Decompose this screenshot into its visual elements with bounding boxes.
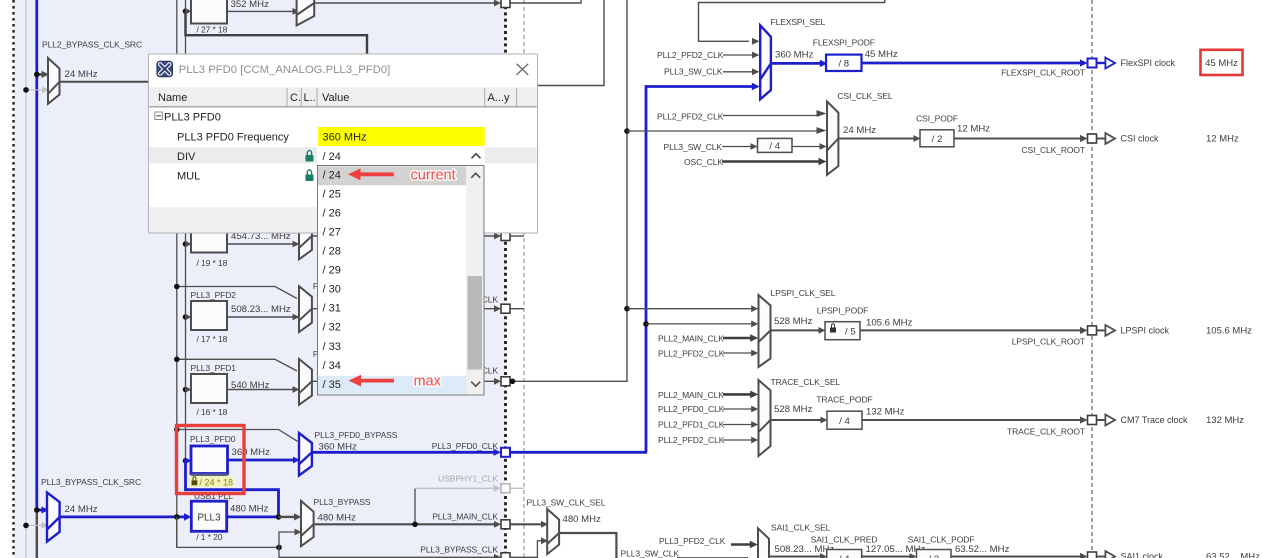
svg-text:/ 26: / 26	[323, 207, 341, 219]
port square PLL3_BYPASS_CLK	[501, 553, 510, 558]
wire: trace mux out	[771, 419, 822, 421]
svg-text:PLL3 PFD0: PLL3 PFD0	[164, 111, 221, 123]
svg-text:FLEXSPI_PODF: FLEXSPI_PODF	[813, 38, 875, 48]
svg-text:PLL3_SW_CLK: PLL3_SW_CLK	[664, 142, 723, 152]
junction dot + arrow block input	[183, 387, 189, 393]
spinner chevron DIV	[472, 154, 481, 159]
svg-text:Value: Value	[322, 92, 349, 104]
port square PLL3_PFD1_CLK	[501, 377, 510, 386]
wire + output triangle LPSPI	[1097, 329, 1106, 331]
svg-text:12 MHz: 12 MHz	[957, 124, 990, 135]
svg-text:MUL: MUL	[177, 171, 200, 183]
junction dot bypass rail row	[174, 427, 180, 433]
svg-text:PLL3_SW_CLK: PLL3_SW_CLK	[621, 549, 680, 558]
wire: PLL3 bypass rail vertical	[176, 0, 178, 547]
left dotted page border	[12, 0, 14, 558]
svg-text:352 MHz: 352 MHz	[231, 0, 270, 10]
svg-text:PLL3_MAIN_CLK: PLL3_MAIN_CLK	[432, 512, 498, 522]
svg-text:PLL3_SW_CLK_SEL: PLL3_SW_CLK_SEL	[527, 498, 606, 508]
dropdown selected item /24	[318, 166, 466, 185]
block PLL3_PFD3 (454.73 MHz)	[191, 226, 227, 253]
wire: into /4 divider	[722, 146, 751, 148]
wire: rail lead-in to PFD1 bypass mux	[177, 359, 297, 371]
dialog row DIV (selected gray)	[149, 147, 317, 164]
wire: blue block out to mux	[228, 459, 295, 462]
wire: PLL3_SW_CLK stub	[723, 71, 753, 73]
wire: mux out to port PLL3_PFD3_CLK	[312, 235, 495, 237]
svg-text:CSI_PODF: CSI_PODF	[916, 114, 958, 124]
svg-text:CSI_CLK_ROOT: CSI_CLK_ROOT	[1021, 145, 1085, 155]
svg-text:/ 2: / 2	[928, 554, 939, 558]
wire stub	[510, 308, 524, 310]
svg-text:PLL2_PFD2_CLK: PLL2_PFD2_CLK	[658, 435, 725, 445]
svg-text:45 MHz: 45 MHz	[1205, 58, 1238, 69]
svg-text:PLL2_PFD2_CLK: PLL2_PFD2_CLK	[657, 112, 724, 122]
svg-text:TRACE_CLK_SEL: TRACE_CLK_SEL	[771, 377, 841, 387]
svg-text:LPSPI_CLK_ROOT: LPSPI_CLK_ROOT	[1012, 337, 1085, 347]
port square CSI_CLK_ROOT	[1088, 134, 1097, 143]
svg-text:/ 17 * 18: / 17 * 18	[197, 334, 228, 344]
wire: CSI in1	[723, 115, 820, 117]
svg-text:/ 27: / 27	[323, 227, 341, 239]
svg-text:PLL3_PFD2_CLK: PLL3_PFD2_CLK	[659, 536, 726, 546]
junction dot LPSPI tap on blue	[643, 321, 649, 327]
svg-text:SAI1_CLK_PRED: SAI1_CLK_PRED	[811, 535, 878, 545]
svg-text:528 MHz: 528 MHz	[774, 316, 813, 327]
wire: mux1 input1 from blue rail	[37, 73, 43, 76]
wire: blue mux out to port PLL3_PFD0_CLK	[312, 451, 495, 454]
svg-text:360 MHz: 360 MHz	[232, 447, 271, 458]
wire: PLL2_MAIN_CLK thick	[723, 337, 751, 340]
svg-text:/ 28: / 28	[323, 246, 341, 258]
mux TRACE_CLK_SEL	[759, 380, 771, 456]
dialog empty area shading	[149, 207, 317, 233]
svg-text:PLL2_PFD1_CLK: PLL2_PFD1_CLK	[658, 420, 725, 430]
mux PLL2_BYPASS_CLK_SRC	[48, 58, 60, 104]
svg-text:current: current	[411, 168, 456, 184]
mux PLL3_BYPASS	[301, 501, 314, 546]
annotation red rect around PLL3_PFD0	[177, 426, 245, 494]
junction dot bypass rail tap	[174, 514, 180, 520]
dropdown list popup	[318, 166, 485, 396]
wire: blue to FlexSPI root port	[862, 62, 1082, 65]
annotation arrow current	[348, 168, 394, 180]
svg-text:CSI_CLK_SEL: CSI_CLK_SEL	[837, 91, 892, 101]
wire: trace in3	[723, 424, 752, 426]
svg-text:PLL3_BYPASS_CLK: PLL3_BYPASS_CLK	[420, 545, 498, 555]
svg-text:SAI1_CLK_SEL: SAI1_CLK_SEL	[771, 523, 831, 533]
junction dot bypass rail row	[174, 357, 180, 363]
svg-text:PLL2_PFD2_CLK: PLL2_PFD2_CLK	[657, 50, 724, 60]
svg-text:PLL3_PFD0: PLL3_PFD0	[190, 434, 236, 444]
junction dot PFD3 feed	[183, 8, 189, 14]
wire + output triangle CSI	[1097, 138, 1106, 140]
port square SAI1_CLK_ROOT	[1088, 552, 1097, 558]
svg-text:24 MHz: 24 MHz	[65, 504, 98, 515]
wire: SAI in2	[677, 557, 748, 558]
svg-text:PLL3_PFD0_CLK: PLL3_PFD0_CLK	[432, 441, 499, 451]
lock icon MUL	[305, 175, 313, 182]
svg-text:SAI1_CLK_PODF: SAI1_CLK_PODF	[908, 535, 975, 545]
wire: LPSPI mux out 528MHz	[771, 329, 820, 331]
mux PLL3_SW_CLK_SEL	[547, 509, 559, 554]
wire: to CSI root port	[954, 138, 1081, 140]
svg-text:/ 24 * 18: / 24 * 18	[200, 478, 234, 488]
dialog titlebar icon	[157, 61, 172, 76]
junction dot bypass net branch	[276, 545, 282, 551]
mux PLL2_PFD3_BYPASS (cut at top)	[297, 0, 315, 26]
mux PLL3_BYPASS_CLK_SRC (blue)	[47, 493, 60, 542]
junction dot + arrow block input	[183, 241, 189, 247]
wire: PLL2_PFD2_CLK stub	[723, 352, 752, 354]
port square PLL3_PFD2_CLK	[501, 304, 510, 313]
svg-text:/ 24: / 24	[323, 151, 341, 163]
svg-text:PLL3 PFD0 [CCM_ANALOG.PLL3_PFD: PLL3 PFD0 [CCM_ANALOG.PLL3_PFD0]	[179, 64, 391, 76]
mux PLL3_PFD0_BYPASS (blue)	[299, 433, 312, 476]
annotation red box around 45 MHz	[1201, 50, 1243, 75]
svg-text:PLL2_PFD0_CLK: PLL2_PFD0_CLK	[658, 404, 725, 414]
mux PLL3_PFD3_BYPASS	[299, 214, 312, 260]
svg-text:/ 24: / 24	[323, 169, 341, 181]
junction dot bypass rail row	[174, 284, 180, 290]
svg-text:PLL3_BYPASS_CLK_SRC: PLL3_BYPASS_CLK_SRC	[41, 477, 141, 487]
wire: gray to PLL3_BYPASS mux in1	[279, 516, 295, 518]
wire: to SAI root port	[951, 556, 1081, 558]
mux SAI1_CLK_SEL (clipped at bottom)	[758, 528, 769, 558]
svg-text:FlexSPI clock: FlexSPI clock	[1121, 58, 1176, 68]
svg-text:CM7 Trace clock: CM7 Trace clock	[1121, 415, 1189, 425]
mux LPSPI_CLK_SEL	[759, 295, 771, 367]
dropdown item /35 highlighted	[318, 376, 466, 395]
mux CSI_CLK_SEL	[827, 102, 838, 175]
svg-text:/ 4: / 4	[839, 416, 850, 427]
svg-text:/ 31: / 31	[323, 303, 341, 315]
block PLL3_PFD2	[191, 301, 227, 330]
svg-text:Name: Name	[158, 92, 187, 104]
svg-text:PLL3_PFD0_BYPASS: PLL3_PFD0_BYPASS	[315, 430, 398, 440]
wire: PLL3 480 feed rail vertical	[185, 0, 187, 461]
wire: OSC_CLK thick	[722, 160, 819, 163]
svg-text:508.23... MHz: 508.23... MHz	[775, 544, 835, 555]
svg-text:L..: L..	[304, 92, 316, 104]
svg-text:/ 25: / 25	[323, 188, 341, 200]
port square PLL2_PFD3_CLK	[501, 0, 510, 8]
wire: block out to mux	[227, 389, 293, 391]
svg-text:max: max	[414, 373, 442, 389]
wire: trace in2	[723, 408, 752, 410]
svg-text:DIV: DIV	[177, 151, 196, 163]
svg-text:CSI clock: CSI clock	[1121, 134, 1160, 144]
background left lavender region	[14, 0, 505, 558]
svg-text:/ 35: / 35	[323, 379, 341, 391]
junction dot on blue rail	[34, 72, 40, 78]
wire: trace in4	[723, 439, 752, 441]
boundary gray dashed line	[523, 0, 525, 558]
svg-text:A...y: A...y	[488, 92, 511, 104]
boundary dotted line mid	[504, 0, 507, 558]
wire: mux out to port	[314, 2, 494, 4]
svg-text:PLL2_MAIN_CLK: PLL2_MAIN_CLK	[658, 390, 724, 400]
svg-text:USBPHY1_CLK: USBPHY1_CLK	[438, 474, 498, 484]
svg-text:132 MHz: 132 MHz	[1206, 415, 1244, 426]
dialog PLL3 PFD0 window	[149, 54, 538, 233]
junction dot bypass rail row	[174, 211, 180, 217]
wire: mux1 input2 from light rail	[26, 89, 43, 91]
junction dot on light rail	[23, 87, 29, 93]
wire: rail lead-in to PFD2 bypass mux	[177, 287, 297, 299]
wire: CSI in2 from distribution rail	[627, 130, 820, 132]
port square PLL3_MAIN_CLK	[501, 520, 510, 529]
svg-text:LPSPI clock: LPSPI clock	[1121, 326, 1170, 336]
wire: FLEXSPI mux out 360MHz blue	[771, 62, 821, 65]
block PLL3 (blue)	[191, 501, 226, 531]
junction dot + arrow block input	[183, 314, 189, 320]
junction dot blue rail tap	[34, 507, 40, 513]
svg-text:480 MHz: 480 MHz	[230, 504, 269, 515]
wire: rail lead-in to PFD3 bypass mux	[177, 214, 297, 226]
block PLL3_PFD1	[191, 374, 227, 403]
wire: to SW mux in1	[510, 523, 541, 525]
wire: mux out to port PLL3_PFD2_CLK	[312, 308, 495, 310]
svg-text:24 MHz: 24 MHz	[843, 125, 876, 136]
wire: to trace root port	[862, 419, 1081, 421]
wire: LPSPI in1 from rail	[627, 308, 752, 310]
wire + output triangle Trace	[1097, 419, 1106, 421]
svg-text:SAI1 clock: SAI1 clock	[1121, 552, 1164, 558]
svg-text:480 MHz: 480 MHz	[318, 513, 357, 524]
svg-text:TRACE_CLK_ROOT: TRACE_CLK_ROOT	[1007, 427, 1085, 437]
svg-text:480 MHz: 480 MHz	[563, 514, 602, 525]
svg-text:63.52... MHz: 63.52... MHz	[1206, 552, 1260, 558]
wire: USBPHY1 branch	[414, 488, 416, 524]
wire: SW mux out down	[559, 533, 616, 558]
port square FLEXSPI_CLK_ROOT (blue)	[1088, 59, 1097, 68]
junction dot light rail tap	[23, 523, 29, 529]
svg-text:/ 30: / 30	[323, 284, 341, 296]
svg-text:/ 8: / 8	[838, 59, 849, 70]
wire: gray rail below PLL3 mux tap	[36, 509, 38, 558]
svg-text:360 MHz: 360 MHz	[323, 131, 367, 143]
svg-text:PLL3_BYPASS: PLL3_BYPASS	[314, 497, 371, 507]
wire: block output to bypass mux	[227, 10, 293, 12]
svg-text:PLL3: PLL3	[197, 513, 221, 524]
svg-text:63.52... MHz: 63.52... MHz	[955, 544, 1010, 555]
dialog table header	[149, 87, 537, 106]
wire: divider to mux	[792, 146, 820, 148]
svg-text:/ 33: / 33	[323, 341, 341, 353]
svg-text:PLL3_SW_CLK: PLL3_SW_CLK	[664, 67, 723, 77]
junction dot PLL3 output branch	[276, 514, 282, 520]
dropdown scrollbar	[466, 166, 484, 394]
wire: light input2	[26, 524, 43, 526]
svg-text:PLL3_PFD2: PLL3_PFD2	[191, 290, 237, 300]
svg-text:LPSPI_PODF: LPSPI_PODF	[817, 306, 868, 316]
wire: blue 24MHz rail	[35, 0, 38, 511]
svg-text:/ 5: / 5	[845, 326, 856, 337]
wire: PLL3_BYPASS_CLK out bottom	[279, 547, 495, 557]
wire: to LPSPI root port	[860, 329, 1081, 331]
wire: PLL3_MAIN_CLK out	[314, 523, 495, 525]
wire: blue riser to PFD feed rail	[186, 460, 279, 517]
wire: light gray OSC rail	[25, 0, 27, 558]
port square PLL3_PFD0_CLK (blue)	[501, 448, 510, 457]
svg-text:508.23... MHz: 508.23... MHz	[231, 304, 291, 315]
wire: blue continues right	[510, 451, 647, 454]
svg-text:105.6 MHz: 105.6 MHz	[866, 318, 913, 329]
mux PLL3_PFD2_BYPASS	[299, 286, 312, 332]
wire: thick L wire down from PFD3 input rail	[186, 11, 368, 60]
svg-text:FLEXSPI_CLK_ROOT: FLEXSPI_CLK_ROOT	[1001, 68, 1085, 78]
wire: rail lead-in to PFD0 bypass mux	[177, 430, 298, 442]
svg-text:360 MHz: 360 MHz	[775, 50, 814, 61]
wire: mux out to port PLL3_PFD1_CLK	[312, 380, 495, 382]
wire: blue 24MHz to PLL3	[60, 516, 185, 519]
svg-text:OSC_CLK: OSC_CLK	[684, 157, 723, 167]
right dashed boundary line	[1091, 0, 1093, 558]
port square USBPHY1_CLK (light)	[501, 484, 510, 493]
junction dot LPSPI tap	[624, 306, 630, 312]
svg-text:132 MHz: 132 MHz	[866, 407, 905, 418]
wire stub	[510, 235, 524, 237]
wire: PLL3_PFD1_CLK long vertical distribution	[512, 0, 627, 381]
svg-text:/ 19 * 18: / 19 * 18	[197, 258, 228, 268]
wire: vertical at x=604 down to behind dialog	[537, 0, 604, 86]
svg-text:FLEXSPI_SEL: FLEXSPI_SEL	[771, 17, 826, 27]
svg-text:/ 4: / 4	[769, 141, 780, 152]
svg-text:PLL3 PFD0 Frequency: PLL3 PFD0 Frequency	[177, 131, 289, 143]
mux FLEXSPI_SEL (blue active)	[760, 25, 771, 99]
wire: trace in1 thick	[723, 393, 751, 396]
wire: blue PLL3_PFD0_CLK into FLEXSPI mux	[646, 87, 753, 453]
wire: blue PLL3 out to junction	[227, 516, 279, 519]
wire: SAI mux out	[769, 556, 821, 558]
wire: block out to mux	[227, 243, 293, 245]
svg-text:TRACE_PODF: TRACE_PODF	[816, 395, 872, 405]
svg-text:/ 27 * 18: / 27 * 18	[197, 25, 228, 35]
svg-text:/ 2: / 2	[932, 134, 943, 145]
wire: PLL2_PFD2_CLK stub	[723, 54, 753, 56]
svg-text:24 MHz: 24 MHz	[65, 69, 98, 80]
wire: LPSPI in2 from blue rail tap	[646, 323, 752, 325]
wire: block out to mux	[227, 316, 293, 318]
svg-text:LPSPI_CLK_SEL: LPSPI_CLK_SEL	[771, 288, 836, 298]
wire stub light	[510, 487, 524, 489]
wire + output triangle FlexSPI	[1097, 62, 1106, 64]
wire + output triangle SAI1	[1097, 556, 1106, 558]
svg-text:C.: C.	[290, 92, 301, 104]
junction dot USBPHY tap	[412, 522, 418, 528]
svg-text:PLL2_MAIN_CLK: PLL2_MAIN_CLK	[658, 334, 724, 344]
svg-text:/ 4: / 4	[839, 554, 850, 558]
annotation arrow max	[349, 375, 395, 387]
dialog row PLL3 PFD0 with expander	[155, 112, 163, 120]
wire: blue input1 from rail	[37, 509, 42, 512]
svg-text:/ 32: / 32	[323, 322, 341, 334]
svg-text:PLL3_PFD1: PLL3_PFD1	[191, 363, 237, 373]
wire: bypass rail down and to mux in2	[177, 517, 279, 548]
lock icon DIV	[305, 155, 313, 162]
port square TRACE_CLK_ROOT	[1088, 416, 1097, 425]
divider box /4 (CSI input)	[758, 138, 793, 152]
wire: to SW mux in2	[510, 541, 542, 558]
dialog close button	[517, 64, 529, 75]
svg-text:/ 34: / 34	[323, 360, 341, 372]
wire: from port right, corner up at x=581	[510, 0, 581, 3]
svg-text:105.6 MHz: 105.6 MHz	[1206, 326, 1252, 337]
wire: mux1 output 24 MHz	[60, 81, 150, 83]
port square LPSPI_CLK_ROOT	[1088, 326, 1097, 335]
svg-text:/ 29: / 29	[323, 265, 341, 277]
port square PLL3_PFD3_CLK	[501, 232, 510, 241]
svg-text:/ 1 * 20: / 1 * 20	[196, 532, 223, 542]
wire: FLEXSPI feedback loop top	[699, 0, 885, 41]
svg-text:528 MHz: 528 MHz	[774, 404, 813, 415]
svg-text:45 MHz: 45 MHz	[865, 49, 898, 60]
svg-text:12 MHz: 12 MHz	[1206, 134, 1239, 145]
block PLL3_PFD0 (blue active)	[191, 446, 228, 474]
svg-text:PLL2_BYPASS_CLK_SRC: PLL2_BYPASS_CLK_SRC	[42, 40, 142, 50]
junction dot after port	[510, 379, 516, 385]
mux PLL3_PFD1_BYPASS	[299, 359, 312, 405]
svg-text:/ 16 * 18: / 16 * 18	[197, 407, 228, 417]
junction dot CSI tap	[624, 128, 630, 134]
svg-text:360 MHz: 360 MHz	[319, 442, 358, 453]
capacitor? no: block PLL2_PFD3 (352 MHz)	[191, 0, 227, 24]
yellow highlighted div value /24*18 with lock	[191, 473, 228, 476]
wire: SAI in1 thick	[731, 543, 751, 546]
svg-text:PLL2_PFD2_CLK: PLL2_PFD2_CLK	[658, 349, 725, 359]
wire: CSI mux out 24MHz	[838, 138, 914, 140]
junction dot + blue arrow block input	[183, 458, 189, 464]
